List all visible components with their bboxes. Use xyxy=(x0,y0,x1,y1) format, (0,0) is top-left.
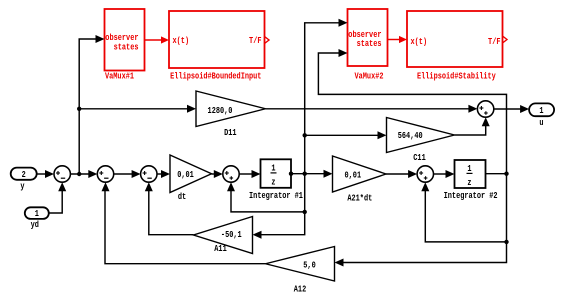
svg-text:1: 1 xyxy=(539,105,543,116)
wire gain A21*dt to sum S5 xyxy=(386,170,417,178)
unit delay block Integrator #2 xyxy=(444,160,498,201)
node x2 line junction at Integrator #2 output xyxy=(504,172,508,176)
svg-text:A11: A11 xyxy=(214,243,227,254)
node x1 branch to feedback xyxy=(303,210,307,214)
wire gain A12 to sum S2 bottom xyxy=(102,182,266,263)
svg-text:Ellipsoid#Stability: Ellipsoid#Stability xyxy=(417,71,496,82)
sum S6 xyxy=(477,101,493,117)
svg-text:x(t): x(t) xyxy=(411,36,428,47)
svg-text:states: states xyxy=(357,38,382,49)
svg-text:2: 2 xyxy=(22,169,26,180)
svg-text:dt: dt xyxy=(178,191,186,202)
svg-text:u: u xyxy=(539,117,543,128)
svg-text:states: states xyxy=(114,41,139,52)
wire sum S6 to output port u xyxy=(494,105,529,113)
wire gain A11 to sum S3 bottom xyxy=(145,182,194,234)
svg-text:D11: D11 xyxy=(224,127,237,138)
sum S2 xyxy=(97,166,113,182)
svg-text:x(t): x(t) xyxy=(173,35,190,46)
svg-text:z: z xyxy=(467,177,471,188)
sum S1 xyxy=(54,166,70,182)
svg-text:564,40: 564,40 xyxy=(398,130,423,141)
wire x1 to gain A11 xyxy=(253,212,305,239)
wire gain dt to sum S4 xyxy=(212,170,223,178)
wire gain C11 to sum S6 bottom xyxy=(455,117,490,135)
svg-text:1280,0: 1280,0 xyxy=(208,105,233,116)
svg-text:A12: A12 xyxy=(294,284,307,295)
svg-text:1: 1 xyxy=(467,163,471,174)
wire x1 unity feedback to sum S4 bottom xyxy=(227,174,305,212)
wire x2 unity feedback to sum S5 bottom xyxy=(421,182,506,242)
svg-text:A21*dt: A21*dt xyxy=(347,192,372,203)
subsystem block Ellipsoid#BoundedInput xyxy=(169,11,265,82)
wire x1 state vertical line to VaMux#2 input 1 xyxy=(305,19,348,174)
output port 1 (u) xyxy=(529,103,554,127)
wire VaMux#1 to Ellipsoid#BoundedInput xyxy=(145,36,170,43)
svg-text:y: y xyxy=(20,181,24,192)
wire x1 branch to gain C11 xyxy=(305,131,387,139)
wire x2 to gain A12 xyxy=(335,174,507,267)
gain A12 (5,0) xyxy=(266,247,335,295)
wire Integrator #1 to gain A21*dt xyxy=(291,170,333,178)
wire sum S3 to gain dt xyxy=(157,170,170,178)
svg-text:Ellipsoid#BoundedInput: Ellipsoid#BoundedInput xyxy=(170,71,261,82)
input port 2 (y) xyxy=(11,168,37,192)
node x2 branch to feedback xyxy=(504,240,508,244)
gain A21*dt (0,01) xyxy=(333,156,387,203)
subsystem block VaMux#2 xyxy=(348,9,388,82)
wire yd port to sum S1 bottom xyxy=(49,182,66,213)
gain dt (0,01) xyxy=(170,155,212,202)
sum S4 xyxy=(223,166,239,182)
node Integrator #1 output xyxy=(289,172,293,176)
svg-text:Integrator #2: Integrator #2 xyxy=(444,190,498,201)
wire y port to sum S1 xyxy=(37,170,54,178)
input port 1 (yd) xyxy=(25,207,49,230)
sum S3 xyxy=(141,166,157,182)
svg-text:1: 1 xyxy=(35,208,39,219)
subsystem block Ellipsoid#Stability xyxy=(407,11,503,82)
node x1 branch to gain C11 xyxy=(303,133,307,137)
output port chevron of Ellipsoid#BoundedInput xyxy=(265,37,270,44)
svg-text:VaMux#1: VaMux#1 xyxy=(105,71,134,82)
gain A11 (-50,1) xyxy=(194,217,253,255)
sum S5 xyxy=(417,166,433,182)
svg-text:0,01: 0,01 xyxy=(177,169,194,180)
svg-text:yd: yd xyxy=(31,219,40,230)
svg-text:C11: C11 xyxy=(413,152,426,163)
wire Integrator #2 to x2 state vertical line xyxy=(486,173,507,175)
svg-text:z: z xyxy=(271,176,275,187)
svg-text:T/F: T/F xyxy=(488,36,501,47)
wire sum S1 to sum S2 xyxy=(70,170,97,178)
node x1 line junction at Integrator #1 output xyxy=(303,172,307,176)
wire sum S5 to Integrator #2 xyxy=(434,170,455,178)
wire x2 state vertical line to VaMux#2 input 2 xyxy=(318,49,506,174)
node branch on S1-S2 wire xyxy=(77,172,81,176)
wire branch to gain D11 xyxy=(79,105,196,113)
svg-text:T/F: T/F xyxy=(249,35,262,46)
svg-text:-50,1: -50,1 xyxy=(221,229,242,240)
gain C11 (564,40) xyxy=(387,118,455,164)
svg-text:1: 1 xyxy=(271,163,275,174)
unit delay block Integrator #1 xyxy=(249,159,303,201)
gain D11 (1280,0) xyxy=(196,91,266,138)
wire sum S4 to Integrator #1 xyxy=(239,170,260,178)
wire gain D11 to sum S6 xyxy=(266,105,478,113)
node branch to D11 xyxy=(77,107,81,111)
svg-text:5,0: 5,0 xyxy=(303,259,316,270)
wire branch up to VaMux#1 xyxy=(79,35,104,174)
svg-text:0,01: 0,01 xyxy=(345,169,362,180)
svg-text:Integrator #1: Integrator #1 xyxy=(249,190,303,201)
subsystem block VaMux#1 xyxy=(105,9,145,82)
output port chevron of Ellipsoid#Stability xyxy=(503,36,508,43)
svg-text:VaMux#2: VaMux#2 xyxy=(354,71,383,82)
wire VaMux#2 to Ellipsoid#Stability xyxy=(388,36,408,43)
wire sum S2 to sum S3 xyxy=(114,170,141,178)
